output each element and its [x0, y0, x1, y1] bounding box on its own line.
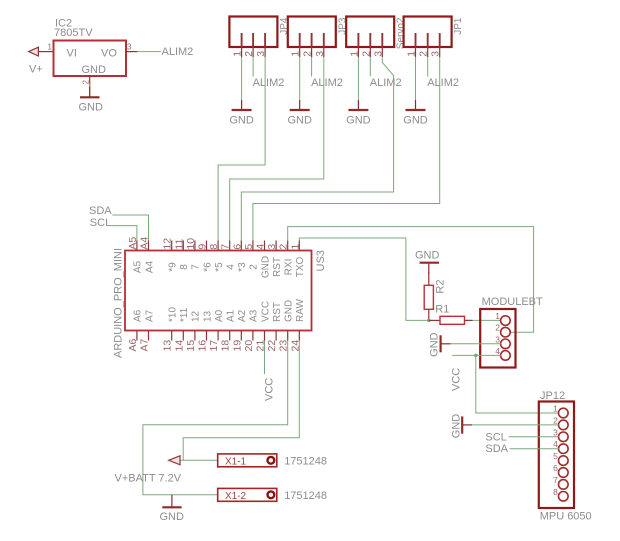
- net label ALIM2 under JP3: [311, 77, 343, 89]
- svg-text:GND: GND: [287, 114, 312, 126]
- svg-text:3: 3: [495, 334, 500, 344]
- svg-text:5: 5: [553, 451, 558, 461]
- net label VCC below US3: [264, 378, 276, 401]
- microcontroller US3 ARDUINO_PRO_MINI body: [125, 251, 312, 331]
- US3 designator label: [315, 250, 327, 271]
- wire R1 to MODULEBT pin1: [473, 319, 501, 321]
- svg-text:9: 9: [197, 244, 209, 250]
- svg-text:X1-1: X1-1: [225, 456, 247, 467]
- connector JP1 body: [404, 17, 452, 48]
- resistor R1 body: [440, 316, 465, 324]
- GND label below JP1: [403, 114, 428, 126]
- svg-text:A6: A6: [127, 338, 139, 351]
- svg-text:VCC: VCC: [260, 301, 271, 322]
- svg-text:A1: A1: [226, 309, 237, 322]
- svg-text:5: 5: [243, 244, 255, 250]
- svg-text:14: 14: [173, 340, 185, 352]
- svg-text:US3: US3: [315, 250, 327, 271]
- svg-text:JP1: JP1: [453, 17, 464, 35]
- svg-text:15: 15: [185, 340, 197, 352]
- svg-text:GND: GND: [79, 102, 104, 114]
- junction MODULEBT pin4 node: [474, 354, 478, 358]
- IC2 pin 2 (GND) lead: [89, 76, 91, 87]
- svg-text:A7: A7: [139, 338, 151, 351]
- GND label at JP12 pin2: [451, 414, 463, 439]
- voltage regulator IC2 7805TV body: [54, 41, 127, 77]
- svg-text:2: 2: [302, 51, 314, 57]
- GND label below JP4: [229, 114, 254, 126]
- svg-text:11: 11: [173, 239, 185, 250]
- svg-text:1: 1: [232, 51, 244, 57]
- connector JP3 designator label: [337, 17, 348, 35]
- wire ground to JP12 pin2: [472, 424, 559, 426]
- net label V+BATT 7.2V: [115, 473, 182, 485]
- resistor R1 right lead: [465, 319, 473, 321]
- svg-text:3: 3: [255, 51, 267, 57]
- svg-text:GND: GND: [346, 114, 371, 126]
- wire IC2.VO to ALIM2 label: [137, 51, 161, 53]
- X1-2 pad circle: [268, 491, 275, 498]
- svg-text:RXI: RXI: [284, 259, 295, 276]
- svg-text:2: 2: [418, 51, 430, 57]
- IC2 pin number 1: [48, 43, 53, 52]
- wire JP4 pin3 to US3 pin8: [218, 57, 265, 241]
- MODULEBT designator label: [482, 296, 543, 308]
- wire JP3 pin3 to US3 pin7: [230, 57, 324, 241]
- IC2 pin 3 (VO) lead: [126, 51, 137, 53]
- wire IC2.GND to ground: [89, 83, 91, 89]
- wire SCL to JP12 pin3: [509, 436, 559, 438]
- wire V+BATT arrow to X1-1: [180, 459, 218, 461]
- svg-text:V+: V+: [29, 64, 43, 76]
- svg-text:4: 4: [255, 244, 267, 250]
- net label SDA at JP12: [485, 443, 508, 455]
- svg-text:GND: GND: [82, 64, 107, 76]
- svg-text:SDA: SDA: [485, 443, 508, 455]
- svg-text:7: 7: [191, 264, 202, 270]
- svg-text:2: 2: [243, 51, 255, 57]
- svg-text:GND: GND: [260, 256, 271, 278]
- svg-text:VCC: VCC: [451, 368, 463, 391]
- X1-1 designator text: [225, 456, 247, 467]
- resistor R2 top lead: [428, 272, 430, 285]
- connector JP4 pin numbers 1 2 3: [232, 51, 268, 57]
- svg-text:*11: *11: [179, 307, 190, 322]
- svg-text:A2: A2: [237, 309, 248, 322]
- wire JP1 pin2 to ALIM2: [427, 57, 429, 77]
- svg-text:A5: A5: [133, 260, 144, 273]
- terminal X1-2 body: [218, 488, 277, 501]
- IC2 value label 7805TV: [54, 27, 93, 39]
- R2 designator label: [435, 280, 447, 294]
- svg-text:2: 2: [278, 244, 290, 250]
- wire JP3 pin2 to ALIM2: [311, 57, 313, 77]
- ground symbol at MODULEBT pin3: [441, 335, 451, 352]
- IC2 pin name GND: [82, 64, 107, 76]
- svg-text:GND: GND: [284, 300, 295, 322]
- net label ALIM2 under SERVO2: [370, 77, 402, 89]
- JP12 designator label: [540, 390, 565, 402]
- resistor R1 left lead: [429, 319, 440, 321]
- svg-text:3: 3: [553, 427, 558, 437]
- svg-text:1: 1: [553, 404, 558, 414]
- connector SERVO2 pin stubs: [358, 33, 382, 57]
- X1-1 pad circle: [268, 457, 275, 464]
- svg-text:R1: R1: [435, 303, 449, 315]
- US3 bottom pin names: [133, 298, 306, 322]
- svg-text:8: 8: [179, 264, 190, 270]
- ground symbol below JP4: [232, 100, 252, 110]
- US3 part name ARDUINO_PRO_MINI: [113, 248, 125, 358]
- svg-text:R2: R2: [435, 280, 447, 294]
- svg-text:2: 2: [82, 80, 91, 85]
- svg-text:22: 22: [266, 340, 278, 352]
- IC2 pin name VI: [67, 48, 77, 60]
- svg-text:A6: A6: [133, 309, 144, 322]
- svg-text:X1-2: X1-2: [225, 491, 247, 502]
- svg-text:7: 7: [553, 475, 558, 485]
- svg-text:GND: GND: [429, 332, 441, 357]
- svg-text:6: 6: [553, 463, 558, 473]
- wire SERVO2 pin3 to US3 pin6: [241, 57, 393, 241]
- svg-text:VO: VO: [101, 48, 117, 60]
- svg-text:1: 1: [495, 311, 500, 321]
- US3 top pin numbers: [127, 237, 301, 250]
- svg-text:1: 1: [348, 51, 360, 57]
- MODULEBT pin circles: [501, 316, 511, 360]
- svg-text:ARDUINO_PRO_MINI: ARDUINO_PRO_MINI: [113, 248, 125, 358]
- resistor R2 body: [424, 285, 433, 309]
- GND label below IC2: [79, 102, 104, 114]
- connector JP12 body: [539, 402, 574, 509]
- wire US3 pin24 RAW to X1-1 net: [183, 341, 299, 461]
- svg-text:A7: A7: [144, 309, 155, 322]
- connector SERVO2 body: [346, 17, 394, 48]
- svg-text:MODULEBT: MODULEBT: [482, 296, 543, 308]
- ground symbol at JP12 pin2: [462, 416, 472, 433]
- svg-text:VCC: VCC: [264, 378, 276, 401]
- svg-text:6: 6: [231, 244, 243, 250]
- IC2 pin 1 (VI) lead: [38, 51, 53, 53]
- svg-text:VI: VI: [67, 48, 77, 60]
- net label SDA: [89, 205, 112, 217]
- JP12 pin numbers 1-8: [553, 404, 558, 497]
- JP12 pin circles: [559, 408, 569, 501]
- svg-text:RST: RST: [272, 302, 283, 322]
- US3 top pin stubs: [137, 241, 299, 251]
- svg-text:A4: A4: [144, 260, 155, 273]
- wire JP1 pin1 to ground: [415, 57, 417, 100]
- svg-text:RAW: RAW: [295, 298, 306, 322]
- svg-text:A3: A3: [249, 309, 260, 322]
- svg-text:SCL: SCL: [485, 431, 506, 443]
- svg-text:ALIM2: ALIM2: [253, 77, 285, 89]
- svg-text:3: 3: [127, 43, 132, 52]
- GND label above R2: [415, 249, 440, 261]
- wire US3 pin23 GND to X1-2: [143, 341, 288, 495]
- wire ground to MODULEBT pin3: [451, 343, 501, 345]
- wire JP3 pin1 to ground: [299, 57, 301, 100]
- svg-text:MPU 6050: MPU 6050: [540, 510, 592, 522]
- connector JP4 body: [229, 17, 277, 48]
- connector JP1 pin stubs: [416, 33, 440, 57]
- svg-text:8: 8: [208, 244, 220, 250]
- svg-text:3: 3: [314, 51, 326, 57]
- IC2 pin number 3: [127, 43, 132, 52]
- net label ALIM2 under JP1: [427, 77, 459, 89]
- resistor R2 bottom lead: [428, 309, 430, 320]
- svg-text:GND: GND: [160, 511, 185, 523]
- svg-text:*10: *10: [168, 307, 179, 322]
- ground symbol below X1-2 wire: [162, 495, 181, 508]
- V+ net label: [29, 64, 43, 76]
- connector JP3 pin numbers 1 2 3: [290, 51, 326, 57]
- svg-text:1: 1: [406, 51, 418, 57]
- connector JP3 pin stubs: [300, 33, 324, 57]
- junction R1 R2 node: [427, 319, 431, 323]
- ground symbol below SERVO2: [348, 100, 368, 110]
- V+BATT supply arrow flag: [169, 456, 180, 465]
- connector MODULEBT body: [480, 309, 515, 368]
- wire SDA to US3 pin A4: [112, 215, 148, 241]
- svg-text:3: 3: [430, 51, 442, 57]
- svg-text:*5: *5: [214, 262, 225, 272]
- svg-text:*6: *6: [202, 262, 213, 272]
- svg-text:A0: A0: [214, 309, 225, 322]
- connector JP4 designator label: [279, 17, 290, 35]
- svg-text:8: 8: [553, 487, 558, 497]
- ground symbol above R2: [420, 263, 439, 274]
- US3 bottom pin stubs: [137, 331, 299, 341]
- wire JP1 pin3 to US3 pin5: [253, 57, 440, 241]
- svg-text:12: 12: [162, 238, 174, 250]
- svg-text:GND: GND: [229, 114, 254, 126]
- svg-text:3: 3: [266, 244, 278, 250]
- svg-text:GND: GND: [403, 114, 428, 126]
- svg-text:*3: *3: [237, 262, 248, 272]
- net label ALIM2 under JP4: [253, 77, 285, 89]
- net label SCL: [90, 217, 111, 229]
- svg-text:SCL: SCL: [90, 217, 111, 229]
- svg-text:JP12: JP12: [540, 390, 565, 402]
- IC2 pin number 2: [82, 80, 91, 85]
- connector SERVO2 designator label: [396, 17, 407, 49]
- svg-text:3: 3: [372, 51, 384, 57]
- svg-text:SDA: SDA: [89, 205, 112, 217]
- svg-text:ALIM2: ALIM2: [370, 77, 402, 89]
- svg-text:ALIM2: ALIM2: [311, 77, 343, 89]
- svg-text:4: 4: [495, 346, 500, 356]
- wire SERVO2 pin2 to ALIM2: [369, 57, 371, 77]
- connector JP1 pin numbers 1 2 3: [406, 51, 442, 57]
- svg-text:4: 4: [553, 439, 558, 449]
- wire SDA to JP12 pin4: [510, 448, 559, 450]
- svg-text:2: 2: [360, 51, 372, 57]
- svg-text:GND: GND: [451, 414, 463, 439]
- ground symbol below JP3: [290, 100, 310, 110]
- net label ALIM2 at IC2: [162, 46, 194, 58]
- IC2 pin name VO: [101, 48, 117, 60]
- svg-text:7805TV: 7805TV: [54, 27, 93, 39]
- wire MODULEBT pin4 to JP12 pin1: [476, 355, 559, 413]
- svg-text:ALIM2: ALIM2: [427, 77, 459, 89]
- svg-text:*9: *9: [168, 262, 179, 272]
- US3 top pin names: [133, 256, 306, 278]
- svg-text:1751248: 1751248: [284, 490, 327, 502]
- net label VCC at MODULEBT: [451, 368, 463, 391]
- svg-text:GND: GND: [415, 249, 440, 261]
- connector JP1 designator label: [453, 17, 464, 35]
- GND label below X1-2 wire: [160, 511, 185, 523]
- svg-text:1: 1: [289, 244, 301, 250]
- wire US3 pin2 RXI to MODULEBT pin2: [288, 227, 534, 333]
- wire SERVO2 pin1 to ground: [357, 57, 359, 100]
- svg-text:7: 7: [220, 244, 232, 250]
- svg-text:10: 10: [185, 238, 197, 250]
- X1-2 value label 1751248: [284, 490, 327, 502]
- ground symbol below JP1: [406, 100, 426, 110]
- svg-text:V+BATT 7.2V: V+BATT 7.2V: [115, 473, 182, 485]
- ground symbol below IC2: [80, 87, 100, 97]
- wire SCL to US3 pin A5: [111, 226, 137, 241]
- GND label below JP3: [287, 114, 312, 126]
- IC2 designator label: [55, 18, 72, 30]
- svg-text:18: 18: [220, 340, 232, 352]
- terminal X1-1 body: [218, 454, 277, 467]
- connector SERVO2 pin numbers 1 2 3: [348, 51, 384, 57]
- connector JP4 pin stubs: [242, 33, 266, 57]
- svg-text:13: 13: [202, 310, 213, 322]
- wire US3 pin21 VCC stub: [264, 341, 266, 375]
- svg-text:2: 2: [495, 323, 500, 333]
- svg-text:13: 13: [162, 340, 174, 352]
- svg-text:TXO: TXO: [295, 257, 306, 278]
- X1-1 value label 1751248: [284, 456, 327, 468]
- net label SCL at JP12: [485, 431, 506, 443]
- wire VCC to MODULEBT pin4: [452, 354, 501, 356]
- svg-text:1: 1: [290, 51, 302, 57]
- GND label below SERVO2: [346, 114, 371, 126]
- wire JP4 pin1 to ground: [241, 57, 243, 100]
- svg-text:17: 17: [208, 340, 220, 352]
- connector JP3 body: [288, 17, 336, 48]
- X1-2 designator text: [225, 491, 247, 502]
- US3 bottom pin numbers: [127, 338, 301, 351]
- svg-text:1751248: 1751248: [284, 456, 327, 468]
- MODULEBT pin numbers 1-4: [495, 311, 500, 356]
- JP12 value label MPU 6050: [540, 510, 592, 522]
- svg-text:2: 2: [249, 264, 260, 270]
- wire JP4 pin2 to ALIM2: [252, 57, 254, 77]
- svg-text:RST: RST: [272, 257, 283, 277]
- svg-text:19: 19: [231, 340, 243, 352]
- V+ supply arrow flag: [29, 47, 39, 56]
- wire US3 pin1 TXO to R1 junction: [299, 238, 429, 320]
- GND label at MODULEBT pin3: [429, 332, 441, 357]
- svg-text:12: 12: [191, 310, 202, 322]
- R1 designator label: [435, 303, 449, 315]
- svg-text:ALIM2: ALIM2: [162, 46, 194, 58]
- svg-text:20: 20: [243, 340, 255, 352]
- svg-text:1: 1: [48, 43, 53, 52]
- svg-text:4: 4: [226, 264, 237, 270]
- svg-text:2: 2: [553, 415, 558, 425]
- svg-text:16: 16: [197, 340, 209, 352]
- svg-text:Servo2: Servo2: [396, 17, 407, 49]
